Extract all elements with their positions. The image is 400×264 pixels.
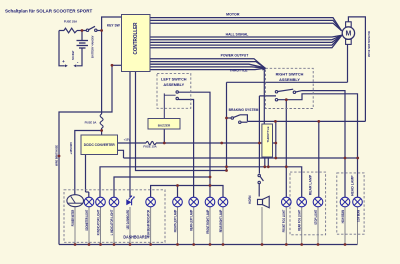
svg-text:R INDICATOR LIGHT: R INDICATOR LIGHT bbox=[96, 210, 100, 236]
svg-text:RIGHT SWITCH: RIGHT SWITCH bbox=[276, 73, 304, 77]
svg-text:FRONT-RIGHT LAMP: FRONT-RIGHT LAMP bbox=[206, 209, 210, 234]
svg-text:FUSE 15A: FUSE 15A bbox=[143, 144, 156, 148]
svg-text:REAR-RIGHT LAMP: REAR-RIGHT LAMP bbox=[219, 209, 223, 232]
svg-text:THROTTLE: THROTTLE bbox=[266, 126, 270, 142]
svg-text:THROTTLE: THROTTLE bbox=[229, 69, 248, 73]
svg-text:+48V/36V: +48V/36V bbox=[69, 142, 73, 155]
svg-text:CONTROLLER: CONTROLLER bbox=[133, 22, 139, 54]
svg-text:BUZZER: BUZZER bbox=[158, 124, 171, 128]
svg-text:ASSEMBLY: ASSEMBLY bbox=[163, 83, 184, 87]
svg-text:HIGH BEAM INDICATOR: HIGH BEAM INDICATOR bbox=[147, 209, 151, 238]
svg-text:STOP LIGHT: STOP LIGHT bbox=[314, 210, 318, 225]
svg-text:POWER METER: POWER METER bbox=[71, 209, 75, 226]
svg-text:HORN: HORN bbox=[248, 195, 252, 204]
svg-text:REAR-LEFT LAMP: REAR-LEFT LAMP bbox=[190, 209, 194, 231]
svg-text:REAR LAMP: REAR LAMP bbox=[309, 174, 313, 195]
svg-text:ODOMETER LIGHT: ODOMETER LIGHT bbox=[85, 210, 89, 231]
svg-text:MOTOR TEMP PROTECTOR: MOTOR TEMP PROTECTOR bbox=[367, 30, 371, 57]
svg-text:WIRE BRKT/HOSE: WIRE BRKT/HOSE bbox=[54, 145, 58, 166]
svg-text:HEAD LAMP: HEAD LAMP bbox=[351, 175, 355, 196]
svg-text:HALL SIGNAL: HALL SIGNAL bbox=[226, 32, 249, 36]
svg-text:POWER OUTPUT: POWER OUTPUT bbox=[221, 54, 250, 58]
svg-text:+: + bbox=[62, 59, 65, 64]
svg-text:FRONT FOG LIGHT: FRONT FOG LIGHT bbox=[282, 210, 286, 233]
svg-text:DC/DC CONVERTER: DC/DC CONVERTER bbox=[84, 143, 116, 147]
svg-text:ASSEMBLY: ASSEMBLY bbox=[279, 78, 300, 82]
svg-text:FUSE 25A: FUSE 25A bbox=[64, 19, 77, 23]
svg-text:LEFT SWITCH: LEFT SWITCH bbox=[161, 78, 187, 82]
svg-text:BATTERY 4AH/36V: BATTERY 4AH/36V bbox=[91, 36, 95, 59]
svg-text:HIGH BEAM: HIGH BEAM bbox=[341, 210, 345, 224]
svg-text:FRONT-LEFT LAMP: FRONT-LEFT LAMP bbox=[173, 209, 177, 232]
svg-text:FUSE 5A: FUSE 5A bbox=[85, 121, 97, 125]
svg-text:LED DASHBOARD: LED DASHBOARD bbox=[126, 209, 130, 229]
svg-text:L INDICATOR LIGHT: L INDICATOR LIGHT bbox=[110, 210, 114, 236]
svg-text:SOCKET: SOCKET bbox=[71, 50, 75, 60]
svg-text:REAR FOG LIGHT: REAR FOG LIGHT bbox=[298, 210, 302, 231]
svg-text:+12V: +12V bbox=[124, 138, 131, 142]
svg-text:M: M bbox=[345, 31, 351, 38]
svg-text:DASHBOARD: DASHBOARD bbox=[123, 234, 148, 239]
svg-text:KEY SW: KEY SW bbox=[107, 24, 121, 28]
svg-text:MOTOR: MOTOR bbox=[226, 13, 240, 17]
svg-text:BRAKING SYSTEM: BRAKING SYSTEM bbox=[229, 108, 259, 112]
svg-text:LOW BEAM: LOW BEAM bbox=[356, 210, 360, 222]
svg-text:Schaltplan für SOLAR SCOOTER S: Schaltplan für SOLAR SCOOTER SPORT bbox=[5, 9, 93, 14]
